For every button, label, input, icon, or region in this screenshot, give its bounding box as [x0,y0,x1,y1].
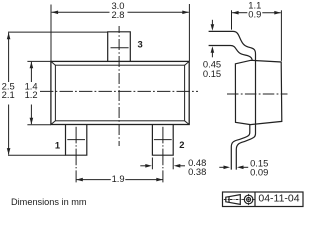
dimension 1.1/0.9 line [232,12,247,14]
projection symbol cone [224,195,243,205]
svg-text:0.09: 0.09 [250,167,268,178]
dimension 1.4/1.2 line [30,62,32,82]
svg-text:0.9: 0.9 [248,9,261,20]
projection symbol circles [243,194,255,205]
body corner chamfer bottom-right [185,121,190,125]
dimension 1.1/0.9 left extension line [231,10,233,29]
dimension 0.45/0.15 down arrow [211,20,213,26]
upper lead inner contour (side view) [209,46,253,61]
body inner outline (front view) [55,65,184,121]
vertical centerline (front view / pin 3) [118,26,120,146]
svg-text:04-11-04: 04-11-04 [258,193,299,205]
body corner chamfer top-left [51,61,56,65]
pin 1 cross mark [67,139,85,141]
pin 2 outline [152,125,173,156]
title block divider [254,192,256,207]
dimension 1.4/1.2 up arrowhead [30,62,34,69]
svg-text:1.2: 1.2 [25,89,38,100]
dimension 0.48/0.38 left arrow [140,165,146,167]
lower lead inner contour (side view) [231,125,250,170]
svg-text:2.8: 2.8 [111,9,124,20]
body outer outline (front view) [51,61,189,124]
pin 1 outline [66,125,87,156]
dimension 1.9 right arrowhead [156,178,163,182]
side view horizontal centerline [227,93,288,95]
dimension 3.0/2.8 left extension line [50,5,52,62]
dimension 2.5/2.1 down arrowhead [7,148,11,155]
dimension 1.9 left arrowhead [76,178,83,182]
dimension 2.5/2.1 up arrowhead [7,33,11,40]
dimension 0.15/0.09 right arrow [243,166,249,168]
pin 3 cross mark [111,47,129,49]
svg-text:0.15: 0.15 [203,68,221,79]
dimension 2.5/2.1 top extension line [8,31,108,33]
side view body outline [235,60,281,124]
dimension 1.1/0.9 right extension line [280,10,282,61]
pin 2 centerline [162,127,164,183]
dimension 2.5/2.1 line [8,33,10,82]
svg-text:2: 2 [179,139,184,150]
body corner chamfer bottom-left [51,121,56,125]
svg-text:3: 3 [138,38,143,49]
dimension 3.0/2.8 left arrowhead [52,11,59,15]
dimension 1.1/0.9 right arrowhead [274,11,281,15]
dimension 0.45/0.15 up arrow [211,52,213,58]
dimension 0.15/0.09 left arrow [219,166,224,168]
title block box [223,192,304,207]
dimension 1.4/1.2 down arrowhead [30,118,34,125]
dimension 0.48/0.38 right arrow [179,165,185,167]
dimension 3.0/2.8 line [52,11,110,13]
dimension 1.4/1.2 top extension line [27,60,51,62]
dimension 1.4/1.2 bottom extension line [27,124,51,126]
dimension 3.0/2.8 right extension line [188,4,190,61]
side view lead through-line with top foot (continuous) [209,31,256,169]
dimension 0.48/0.38 right extension line [172,158,174,170]
svg-text:1: 1 [55,139,60,150]
dimension 1.1/0.9 left arrowhead [232,11,239,15]
svg-text:2.1: 2.1 [2,89,15,100]
body corner chamfer top-right [185,61,190,65]
dimension 0.48/0.38 left extension line [151,158,153,170]
pin 1 centerline [75,127,77,183]
svg-text:0.38: 0.38 [188,166,206,177]
dimension 2.5/2.1 bottom extension line [8,154,66,156]
pin 2 cross mark [154,139,172,141]
svg-text:Dimensions in mm: Dimensions in mm [11,197,87,207]
pin 3 tab outline [108,32,131,62]
horizontal centerline (front view) [40,90,198,92]
svg-text:1.9: 1.9 [112,173,125,184]
dimension 1.9 line [77,179,111,181]
dimension 3.0/2.8 right arrowhead [182,11,189,15]
